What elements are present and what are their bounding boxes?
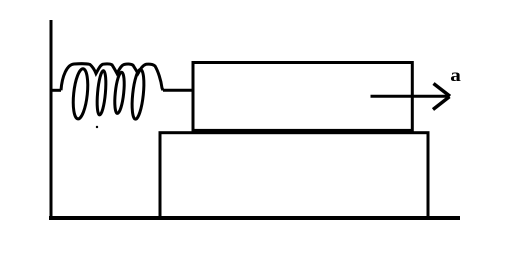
stray dot below spring <box>96 126 98 128</box>
wall (left vertical line) <box>50 20 53 218</box>
wire (left stub from wall to spring) <box>50 89 62 92</box>
spring loop 2 (tilted ellipse) <box>96 70 108 115</box>
spring loop 1 (tilted ellipse) <box>71 68 90 120</box>
spring (coil humps top line) <box>61 64 163 91</box>
lower block (large rectangle on ground) <box>160 133 428 219</box>
floor (ground line) <box>49 216 460 220</box>
svg-text:a: a <box>450 65 461 85</box>
spring loop 3 (tilted ellipse) <box>113 72 126 114</box>
wire (right stub from spring to upper block) <box>163 89 193 92</box>
arrow head upper barb <box>434 84 451 97</box>
spring loop 4 (tilted ellipse) <box>130 69 146 120</box>
upper block (rectangle on top of lower block) <box>193 63 412 131</box>
acceleration arrow shaft <box>371 95 450 98</box>
arrow head lower barb <box>433 97 450 110</box>
